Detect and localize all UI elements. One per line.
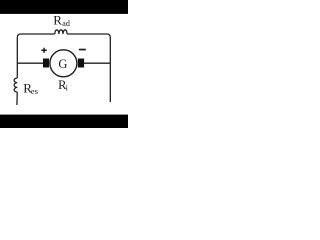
wire: galvanometer to right vertical [84, 62, 110, 64]
svg-text:ad: ad [62, 19, 70, 28]
wire: top wire right segment + top-right corner + right vertical [67, 34, 110, 102]
resistor Res (3-hump coil on left vertical) [14, 78, 17, 92]
minus sign [79, 49, 86, 51]
svg-text:G: G [58, 57, 67, 71]
top letterbox black bar [0, 0, 128, 14]
wire: middle branch from left vertical to galvanometer [17, 62, 43, 64]
bottom letterbox black bar [0, 115, 128, 128]
right terminal square [78, 59, 84, 68]
resistor Rad (3-hump coil on top wire) [55, 30, 67, 34]
left terminal square [43, 59, 49, 68]
galvanometer G circle [50, 50, 77, 77]
svg-text:es: es [31, 86, 38, 96]
wire: left vertical + top-left corner + top wire left segment [17, 34, 55, 78]
wire: tail below Res [16, 92, 18, 105]
white background [0, 0, 128, 128]
plus sign [41, 48, 47, 53]
svg-text:R: R [53, 13, 62, 28]
